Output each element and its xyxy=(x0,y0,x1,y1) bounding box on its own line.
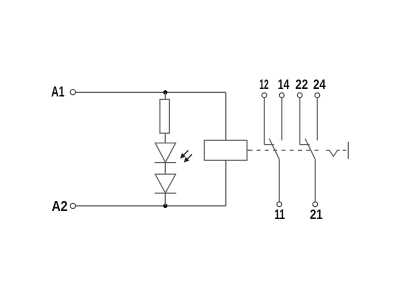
terminal 12 xyxy=(262,93,267,98)
svg-text:12: 12 xyxy=(259,76,268,92)
contact blade 21-22 xyxy=(305,139,315,160)
svg-text:11: 11 xyxy=(274,206,285,222)
contact blade 11-12 xyxy=(269,139,279,160)
relay coil K1 xyxy=(204,140,247,160)
terminal A2 xyxy=(70,203,75,208)
mechanical link dashed line xyxy=(257,149,323,151)
wire resistor to LED xyxy=(164,133,166,143)
terminal 22 xyxy=(297,93,302,98)
terminal 24 xyxy=(315,93,320,98)
wire from A1 junction to resistor xyxy=(164,92,166,99)
wire from 12 xyxy=(263,98,265,145)
wire A1 rail xyxy=(76,91,226,93)
svg-text:14: 14 xyxy=(278,76,290,92)
wire LED to diode xyxy=(164,163,166,175)
svg-text:22: 22 xyxy=(295,76,308,92)
wire diode to A2 junction xyxy=(164,193,166,206)
node junction on A1 rail xyxy=(163,90,167,94)
svg-text:A2: A2 xyxy=(52,199,68,215)
resistor R1 xyxy=(160,99,170,133)
LED D1 xyxy=(155,143,177,163)
fixed contact jog 12 xyxy=(264,144,274,146)
wire from 24 xyxy=(316,98,318,141)
mechanical link end bar xyxy=(347,142,349,159)
mechanical link stub from coil xyxy=(247,149,253,151)
wire blade to terminal 21 xyxy=(314,159,316,202)
LED arrows xyxy=(181,150,192,161)
wire from 14 xyxy=(281,98,283,141)
terminal 21 xyxy=(313,202,318,207)
terminal 14 xyxy=(279,93,284,98)
terminal 11 xyxy=(277,202,282,207)
wire from 22 xyxy=(299,98,301,145)
wire coil bottom to A2 rail xyxy=(225,160,227,206)
svg-text:A1: A1 xyxy=(51,84,64,100)
wire A2 rail xyxy=(76,205,226,207)
svg-text:21: 21 xyxy=(310,206,323,222)
wire A1 rail corner down to coil xyxy=(225,92,227,140)
terminal A1 xyxy=(70,90,75,95)
diode D2 xyxy=(155,174,177,193)
wire blade to terminal 11 xyxy=(278,159,280,202)
svg-text:24: 24 xyxy=(313,76,326,92)
node junction on A2 rail xyxy=(163,204,167,208)
fixed contact jog 22 xyxy=(300,144,310,146)
mechanical link dash after V xyxy=(343,149,346,151)
mechanical link V notch xyxy=(326,150,340,156)
